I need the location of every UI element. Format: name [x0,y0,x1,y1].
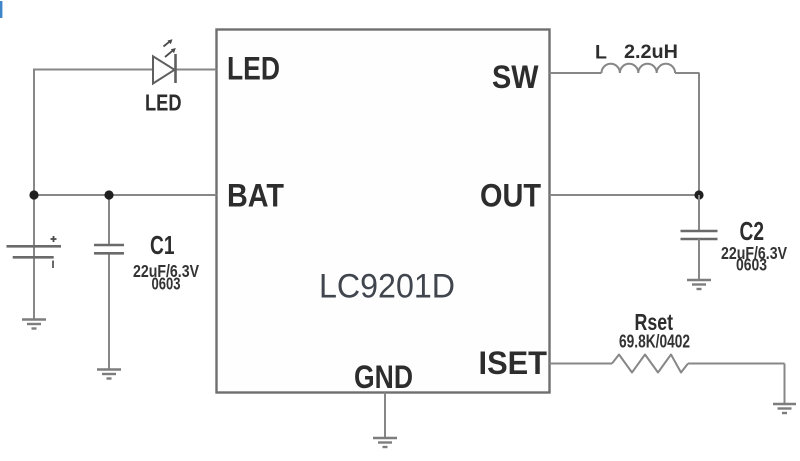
node junction on OUT net at C2 [694,190,703,199]
blue margin mark [0,1,2,18]
wire from battery top corner to LED anode [33,69,153,71]
resistor Rset zigzag [612,355,688,373]
ground below C1 [97,370,121,379]
LED D1 triangle (anode) [153,56,175,83]
wire C1 bottom stem to ground [108,254,110,370]
wire right vertical from inductor down to OUT net [698,73,700,196]
LED D1 cathode bar [174,54,177,83]
capacitor C2 bottom plate [681,238,718,241]
svg-text:69.8K/0402: 69.8K/0402 [619,332,690,352]
svg-text:C1: C1 [150,230,175,260]
ground below GND pin [373,438,397,447]
wire C1 top stem [108,195,110,245]
battery BT1 plus sign [51,236,57,242]
wire OUT pin to node [550,194,700,196]
IC U1 LC9201D box [217,30,550,393]
svg-text:LED: LED [145,90,182,116]
LED D1 emission arrow 2 [165,50,173,57]
svg-text:0603: 0603 [152,273,181,293]
svg-text:LC9201D: LC9201D [319,268,455,306]
battery BT1 minus tick [52,261,54,269]
battery BT1 positive plate [7,245,62,248]
LED D1 emission arrow 1 [164,41,171,46]
wire BAT net horizontal to BAT pin [33,194,217,196]
wire left vertical from top corner down to BAT net [33,69,35,196]
node junction on BAT net at battery [29,190,38,199]
wire ISET pin to resistor [550,363,613,365]
svg-text:0603: 0603 [736,255,767,275]
svg-text:C2: C2 [740,216,765,246]
svg-text:SW: SW [492,59,539,95]
wire C2 top stem [698,195,700,231]
svg-text:BAT: BAT [227,178,284,214]
svg-text:GND: GND [354,359,413,395]
wire SW pin to inductor [550,72,602,74]
node junction on BAT net at C1 [104,190,113,199]
capacitor C2 top plate [681,230,718,233]
wire down to Rset ground [784,364,786,405]
ground below Rset [773,404,796,413]
inductor L 2.2uH coil [602,64,676,73]
ground below C2 [687,280,711,289]
capacitor C1 bottom plate [94,252,124,255]
svg-text:OUT: OUT [480,178,541,214]
svg-text:ISET: ISET [479,345,548,381]
wire GND pin stem [384,393,386,439]
svg-text:LED: LED [227,51,280,87]
wire C2 bottom stem to ground [698,239,700,280]
svg-text:L: L [595,42,607,64]
svg-text:2.2uH: 2.2uH [624,41,678,63]
ground below battery [22,320,46,329]
wire from LED cathode to LED pin [176,69,217,71]
wire battery stem [33,195,35,319]
wire resistor to right corner [688,363,785,365]
wire inductor to right corner [675,72,699,74]
battery BT1 negative plate [13,256,54,259]
capacitor C1 top plate [94,244,124,247]
